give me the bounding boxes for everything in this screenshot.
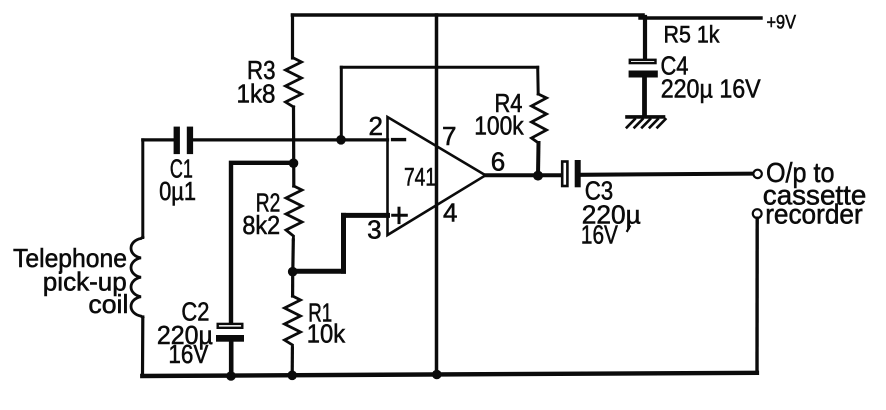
wire top supply rail left segment — [293, 13, 644, 17]
svg-text:8k2: 8k2 — [242, 210, 280, 240]
wire left rail top horizontal to C1 — [143, 138, 174, 141]
wire from top rail down to R3 — [291, 15, 294, 58]
junction C2 on 0V rail — [226, 371, 236, 381]
wire top supply rail right segment to +9V — [640, 16, 761, 19]
capacitor C3 electrolytic — [562, 160, 581, 187]
svg-text:1k8: 1k8 — [237, 79, 276, 109]
capacitor C2 electrolytic — [216, 324, 244, 342]
junction feedback on pin2 wire — [336, 135, 346, 145]
wire R4 top lead — [536, 67, 540, 94]
wire C1 to op-amp pin 2 — [193, 138, 387, 141]
wire top rail to C4 — [643, 17, 647, 59]
inductor L1 telephone pick-up coil — [131, 237, 143, 318]
junction R4 on output wire — [533, 171, 543, 181]
wire R4 bottom lead to output — [536, 143, 541, 176]
wire R2 bottom to node — [291, 240, 295, 272]
wire node to R1 top — [291, 272, 294, 296]
wire R1 bottom to 0V rail — [291, 348, 294, 376]
inverting input minus sign — [393, 138, 405, 141]
wire R3 bottom through pin2 line to R2 top — [292, 107, 295, 186]
svg-text:4: 4 — [443, 197, 457, 227]
svg-text:R5 1k: R5 1k — [664, 22, 721, 49]
wire feedback vertical up from pin2 node — [340, 67, 343, 139]
junction node R2/R1/pin3 — [288, 267, 298, 277]
svg-text:coil: coil — [88, 289, 128, 319]
wire lower terminal down to 0V rail — [755, 218, 759, 373]
svg-text:recorder: recorder — [765, 199, 863, 230]
stray tick mark after 16V — [627, 226, 630, 231]
capacitor C1 — [174, 127, 194, 155]
wire supply vertical through op-amp pins 7 and 4 — [435, 15, 439, 375]
svg-text:0µ1: 0µ1 — [159, 176, 196, 206]
wire into op-amp pin 3 — [344, 213, 388, 218]
svg-text:10k: 10k — [307, 319, 346, 349]
resistor R2 — [286, 186, 302, 240]
op-amp U1 741 triangle — [388, 117, 486, 235]
wire feedback horizontal to R4 — [341, 66, 537, 69]
output terminal upper circle — [753, 170, 761, 178]
output terminal lower circle — [753, 209, 762, 218]
svg-text:100k: 100k — [474, 110, 524, 140]
svg-text:741: 741 — [404, 163, 436, 191]
wire pin3 node horizontal — [293, 269, 344, 274]
wire left rail upper — [141, 140, 144, 238]
non-inverting input plus sign — [393, 208, 407, 222]
wire C4 to ground — [642, 78, 647, 116]
ground symbol — [627, 117, 666, 128]
resistor R4 — [532, 94, 547, 143]
svg-text:220µ 16V: 220µ 16V — [661, 74, 762, 104]
wire op-amp output to C3 — [486, 173, 562, 177]
svg-text:3: 3 — [367, 215, 381, 245]
junction supply vertical on 0V rail — [432, 370, 442, 380]
wire pin3 vertical — [341, 215, 346, 271]
resistor R1 — [285, 296, 301, 348]
svg-text:16V: 16V — [581, 219, 619, 249]
node C2 tee junction — [289, 158, 299, 168]
wire tee to C2 branch — [231, 163, 294, 323]
wire C3 to output terminal — [581, 174, 753, 175]
junction R1 on 0V rail — [287, 371, 297, 381]
svg-text:7: 7 — [442, 121, 456, 151]
svg-text:16V: 16V — [168, 339, 209, 369]
wire 0V bottom rail — [142, 373, 757, 376]
wire C2 bottom lead — [229, 342, 234, 376]
capacitor C4 electrolytic — [629, 60, 658, 78]
wire left rail lower — [143, 317, 231, 376]
resistor R3 — [286, 58, 302, 107]
svg-text:6: 6 — [491, 147, 505, 177]
svg-text:2: 2 — [368, 111, 382, 141]
svg-text:+9V: +9V — [767, 12, 797, 33]
